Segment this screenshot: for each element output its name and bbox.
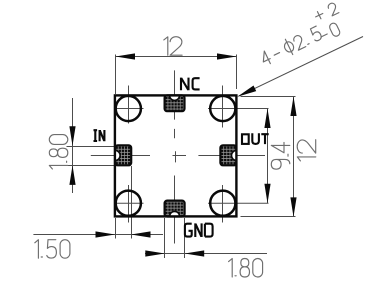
center cross vertical — [175, 151, 177, 162]
IN pad (left) — [115, 145, 131, 165]
label OUT — [242, 133, 269, 144]
OUT pad (right) — [220, 145, 236, 165]
arrow right-12 top — [290, 97, 296, 117]
centerline ext through top-right hole — [208, 108, 269, 110]
ext line top-right package edge extended — [241, 96, 296, 98]
label IN — [94, 130, 105, 141]
crosshair h top-left hole — [114, 108, 143, 110]
arrow top-12 right — [217, 53, 237, 59]
arrow left-1.80 upper — [69, 126, 75, 146]
ext line bottom-right package edge extended — [241, 216, 296, 218]
crosshair h bottom-left hole — [114, 202, 143, 204]
NC pad (top) — [165, 95, 185, 111]
leader arrowhead at corner — [236, 86, 256, 100]
label GND — [185, 223, 213, 237]
hole top-left — [116, 96, 141, 121]
crosshair v bottom-right hole — [222, 185, 224, 223]
arrow 9.4 bottom — [264, 184, 270, 204]
9.4 dim line — [267, 109, 269, 204]
dim text 1.80 (bottom) — [229, 259, 263, 278]
v-centerline through GND pad — [174, 176, 176, 244]
v-centerline through NC pad — [174, 70, 176, 119]
center cross horizontal — [173, 155, 187, 157]
crosshair v top-right hole — [222, 86, 224, 128]
ext line right of top 12 dim — [236, 55, 238, 90]
dim text 9.4 (right, rotated) — [271, 142, 290, 169]
h-centerline through OUT pad — [198, 155, 265, 157]
arrow left-1.80 lower — [69, 165, 75, 185]
right 12 dim line — [293, 97, 295, 217]
bottom 1.80 dim line — [145, 253, 267, 255]
IN pad bottom edge ext — [67, 165, 115, 167]
GND pad (bottom) — [165, 201, 185, 217]
arrow right-12 bottom — [290, 197, 296, 217]
hole top-right — [210, 96, 235, 121]
GND pad left edge ext down — [164, 218, 166, 258]
label NC — [181, 78, 200, 91]
leader text 4-PHI2.5 +2/-0 — [253, 2, 348, 70]
arrow 9.4 top — [264, 109, 270, 129]
arrow 1.50 left — [96, 231, 116, 237]
1.50 ext: IN pad right edge down — [131, 166, 133, 239]
bottom 1.50 dim line — [33, 234, 163, 236]
leader line to corner — [239, 37, 364, 97]
centerline ext through bottom-right hole — [208, 202, 269, 204]
1.50 ext: package left edge down — [115, 218, 117, 239]
h-centerline through IN pad — [91, 155, 150, 157]
v-centerline dash — [174, 129, 176, 138]
crosshair v top-left hole — [128, 86, 130, 124]
dim text 12 (right, rotated) — [297, 140, 316, 161]
hole bottom-left — [116, 191, 141, 216]
arrow bottom-1.80 left — [145, 250, 165, 256]
arrow bottom-1.80 right — [185, 250, 205, 256]
GND pad right edge ext down — [184, 218, 186, 258]
IN pad top edge ext — [67, 146, 115, 148]
dim text 12 (top) — [164, 37, 182, 56]
crosshair v bottom-left hole — [128, 185, 130, 223]
dim text 1.80 (left, rotated) — [49, 135, 68, 169]
arrow top-12 left — [116, 53, 136, 59]
dim text 1.50 (bottom) — [35, 240, 70, 259]
hole bottom-right — [210, 191, 235, 216]
top 12 dim line — [116, 56, 237, 58]
arrow 1.50 right — [131, 231, 151, 237]
left 1.80 dim line — [72, 98, 74, 193]
ext line left of top 12 dim — [115, 55, 117, 95]
